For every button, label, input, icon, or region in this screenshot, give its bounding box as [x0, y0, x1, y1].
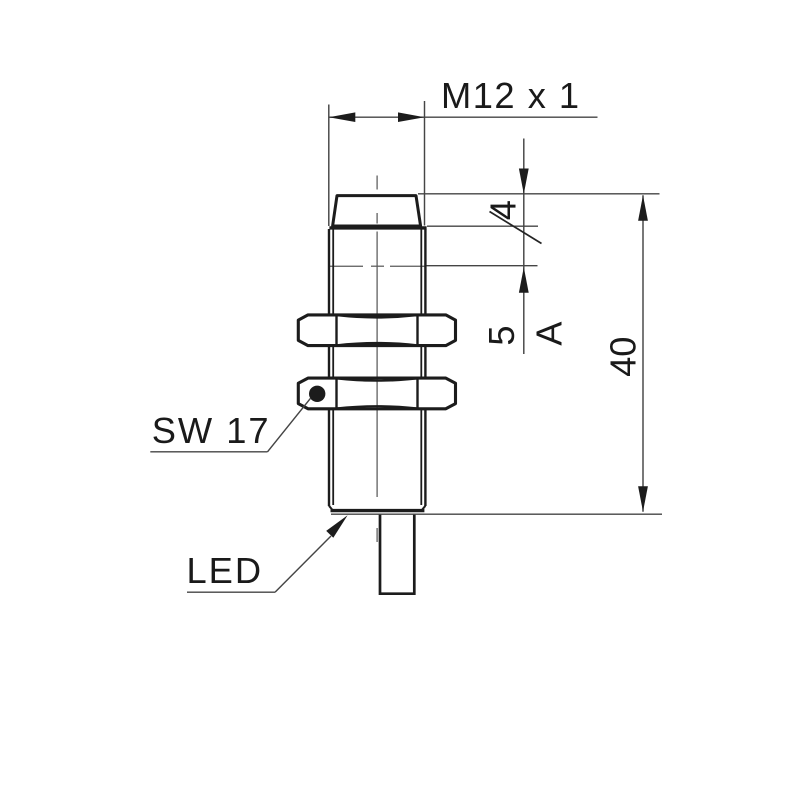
dim 5 arrow up: [519, 267, 529, 293]
barrel thread root edges: [333, 230, 421, 506]
cap bottom reference line: [427, 225, 538, 227]
M12 dimension line: [329, 116, 598, 118]
hex nut 2 facet lines: [337, 379, 418, 408]
SW 17 leader: [268, 398, 311, 452]
svg-text:40: 40: [603, 337, 644, 377]
svg-text:A: A: [528, 321, 569, 346]
LED dot on nut 2: [309, 386, 325, 402]
barrel outer edges: [329, 229, 425, 506]
hex nut 1: [298, 315, 455, 346]
hex nut 2 chamfer arcs: [337, 378, 418, 408]
svg-text:4: 4: [482, 200, 523, 220]
svg-text:SW 17: SW 17: [152, 410, 271, 451]
M12 arrow left: [329, 112, 356, 122]
dim 40 dimension line: [642, 195, 644, 511]
oblique stroke terminator: [490, 212, 542, 244]
svg-text:5: 5: [481, 325, 522, 345]
dim-5 reference line: [427, 265, 538, 267]
hex nut 1 chamfer arcs: [337, 315, 418, 345]
LED underline: [187, 591, 275, 593]
dim 40 bottom extension line: [331, 513, 662, 515]
svg-text:LED: LED: [187, 550, 264, 591]
dim 4 arrow down: [519, 169, 529, 195]
dim 4/5 dimension line: [523, 139, 525, 355]
top face reference line: [418, 193, 660, 195]
hex nut 1 facet lines: [337, 316, 418, 345]
dim 40 arrow down: [638, 486, 648, 512]
M12 arrow right: [398, 112, 425, 122]
cap shoulder ledge: [329, 226, 426, 229]
vertical centerline: [376, 176, 378, 543]
horizontal centerline: [328, 265, 427, 267]
M12 dimension extension lines: [329, 101, 425, 226]
body bottom edge: [329, 506, 425, 511]
sensor cap (sensing face): [333, 196, 421, 226]
hex nut 2: [298, 378, 455, 409]
dim 40 arrow up: [638, 195, 648, 221]
LED leader: [275, 536, 331, 592]
SW 17 underline: [150, 451, 267, 453]
svg-text:M12 x 1: M12 x 1: [441, 75, 581, 116]
connector plug: [380, 514, 414, 594]
LED arrow: [326, 515, 347, 537]
